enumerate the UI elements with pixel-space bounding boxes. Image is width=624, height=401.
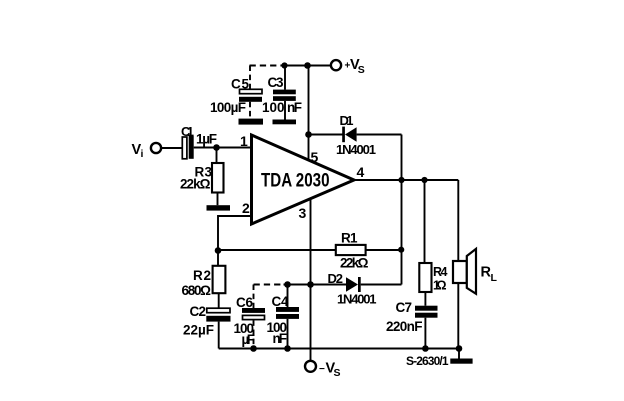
svg-text:C7: C7 [396,300,413,315]
svg-text:C4: C4 [272,294,289,309]
svg-text:2: 2 [242,200,250,216]
wire pin 4 output [354,179,458,181]
resistor R4 1 ohm [419,180,447,293]
svg-text:1µF: 1µF [196,132,217,147]
wire right vertical bus (D1 line down to D2 line) [401,135,403,285]
svg-text:D1: D1 [340,113,354,128]
ground stub bottom right [458,349,460,359]
terminal -Vs [305,361,341,380]
svg-text:22µF: 22µF [183,323,214,338]
svg-text:TDA 2030: TDA 2030 [261,171,330,192]
svg-text:5: 5 [311,149,319,165]
diode D1 1N4001 [309,113,377,157]
svg-text:L: L [491,272,498,284]
svg-text:C2: C2 [190,304,207,319]
capacitor C2 22uF [183,304,231,349]
node junction C3 / top rail [281,62,287,68]
svg-text:µF: µF [242,332,256,347]
resistor R2 680 [182,251,226,309]
svg-text:R1: R1 [341,231,358,246]
svg-text:100: 100 [262,100,285,115]
wire D2 cathode to right bus [361,284,402,286]
terminal Vi input [132,142,162,160]
node junction C7 / bottom rail [422,345,429,352]
node junction speaker drop / rail / ground [456,345,463,352]
capacitor C6 (100uF, dashed optional) [234,285,266,349]
svg-text:1N4001: 1N4001 [336,142,376,157]
svg-text:4: 4 [357,164,365,180]
resistor R1 22k feedback [336,231,369,271]
wire output corner down to speaker [457,180,459,261]
wire D1 cathode side to right bus [357,134,402,136]
speaker RL [453,249,498,294]
wire speaker bottom to rail [457,283,459,349]
node junction C4 / bottom rail [284,345,291,352]
ground bar S-2630/1 [450,359,472,364]
wire R1 to right bus [366,249,402,251]
wire feedback node to R1 [218,249,336,251]
svg-text:220nF: 220nF [386,319,423,334]
node junction supply drop / top rail [304,62,311,69]
svg-text:nF: nF [287,100,302,115]
svg-text:C5: C5 [231,77,249,92]
diode D2 1N4001 [328,271,377,307]
node junction right bus / output [421,177,427,183]
svg-text:R2: R2 [193,268,211,283]
ground bar under R3 [207,205,231,210]
svg-text:S: S [334,367,341,379]
svg-text:C1: C1 [181,124,194,139]
ground bar under C5 [239,119,264,125]
resistor R3 22k [180,148,224,206]
svg-text:3: 3 [299,205,307,221]
svg-text:D2: D2 [328,271,344,286]
node junction pin2 / R2 / R1 [215,247,222,254]
wire -Vs line solid (C4 node to D2) [284,284,347,286]
capacitor C1 1uF [181,124,217,159]
node junction C6 / bottom rail [250,345,257,352]
svg-text:i: i [141,148,144,160]
node junction C1 / R3 / pin1 [213,144,220,151]
wire bottom ground rail [219,348,459,350]
svg-text:R4: R4 [433,265,448,279]
node junction R1 / right bus [398,247,404,253]
capacitor C7 220nF [386,292,438,349]
svg-text:1N4001: 1N4001 [337,292,377,307]
wire -Vs line dashed (C6 to C4 node) [254,284,284,286]
wire pin 2 to feedback node [218,216,252,250]
wire top rail dashed (C5 to C3 node) [250,65,285,67]
svg-text:C6: C6 [236,295,253,310]
wire C1 to pin 1 [194,147,252,149]
svg-text:nF: nF [273,331,288,346]
capacitor C5 (100uF, dashed optional) [210,66,262,119]
svg-text:22kΩ: 22kΩ [340,255,369,270]
svg-text:1Ω: 1Ω [433,279,447,293]
node junction pin3 / -Vs line [307,281,314,288]
capacitor C4 (100nF) [267,285,300,349]
svg-text:S: S [358,64,365,76]
op-amp U1 TDA 2030 [252,135,355,224]
terminal +Vs [331,57,365,76]
capacitor C3 (100nF) [262,66,302,120]
wire top rail solid to +Vs terminal [284,65,331,67]
node junction C4 / -Vs line [284,281,291,288]
wire pin 3 down through rail to -Vs terminal [310,199,312,361]
svg-text:S-2630/1: S-2630/1 [406,354,449,368]
node junction output / right bus [398,177,404,183]
svg-text:22kΩ: 22kΩ [180,177,211,192]
wire +Vs vertical drop to D1 node [308,66,310,135]
svg-text:100µF: 100µF [210,100,246,115]
svg-text:C3: C3 [268,75,284,90]
svg-text:680Ω: 680Ω [182,283,212,298]
wire input to C1 [161,147,182,149]
wire pin 5 stub [308,135,310,161]
node junction D1 / pin5 / supply [305,131,312,138]
svg-text:−: − [319,364,325,375]
ground bar under C3 [273,120,297,125]
